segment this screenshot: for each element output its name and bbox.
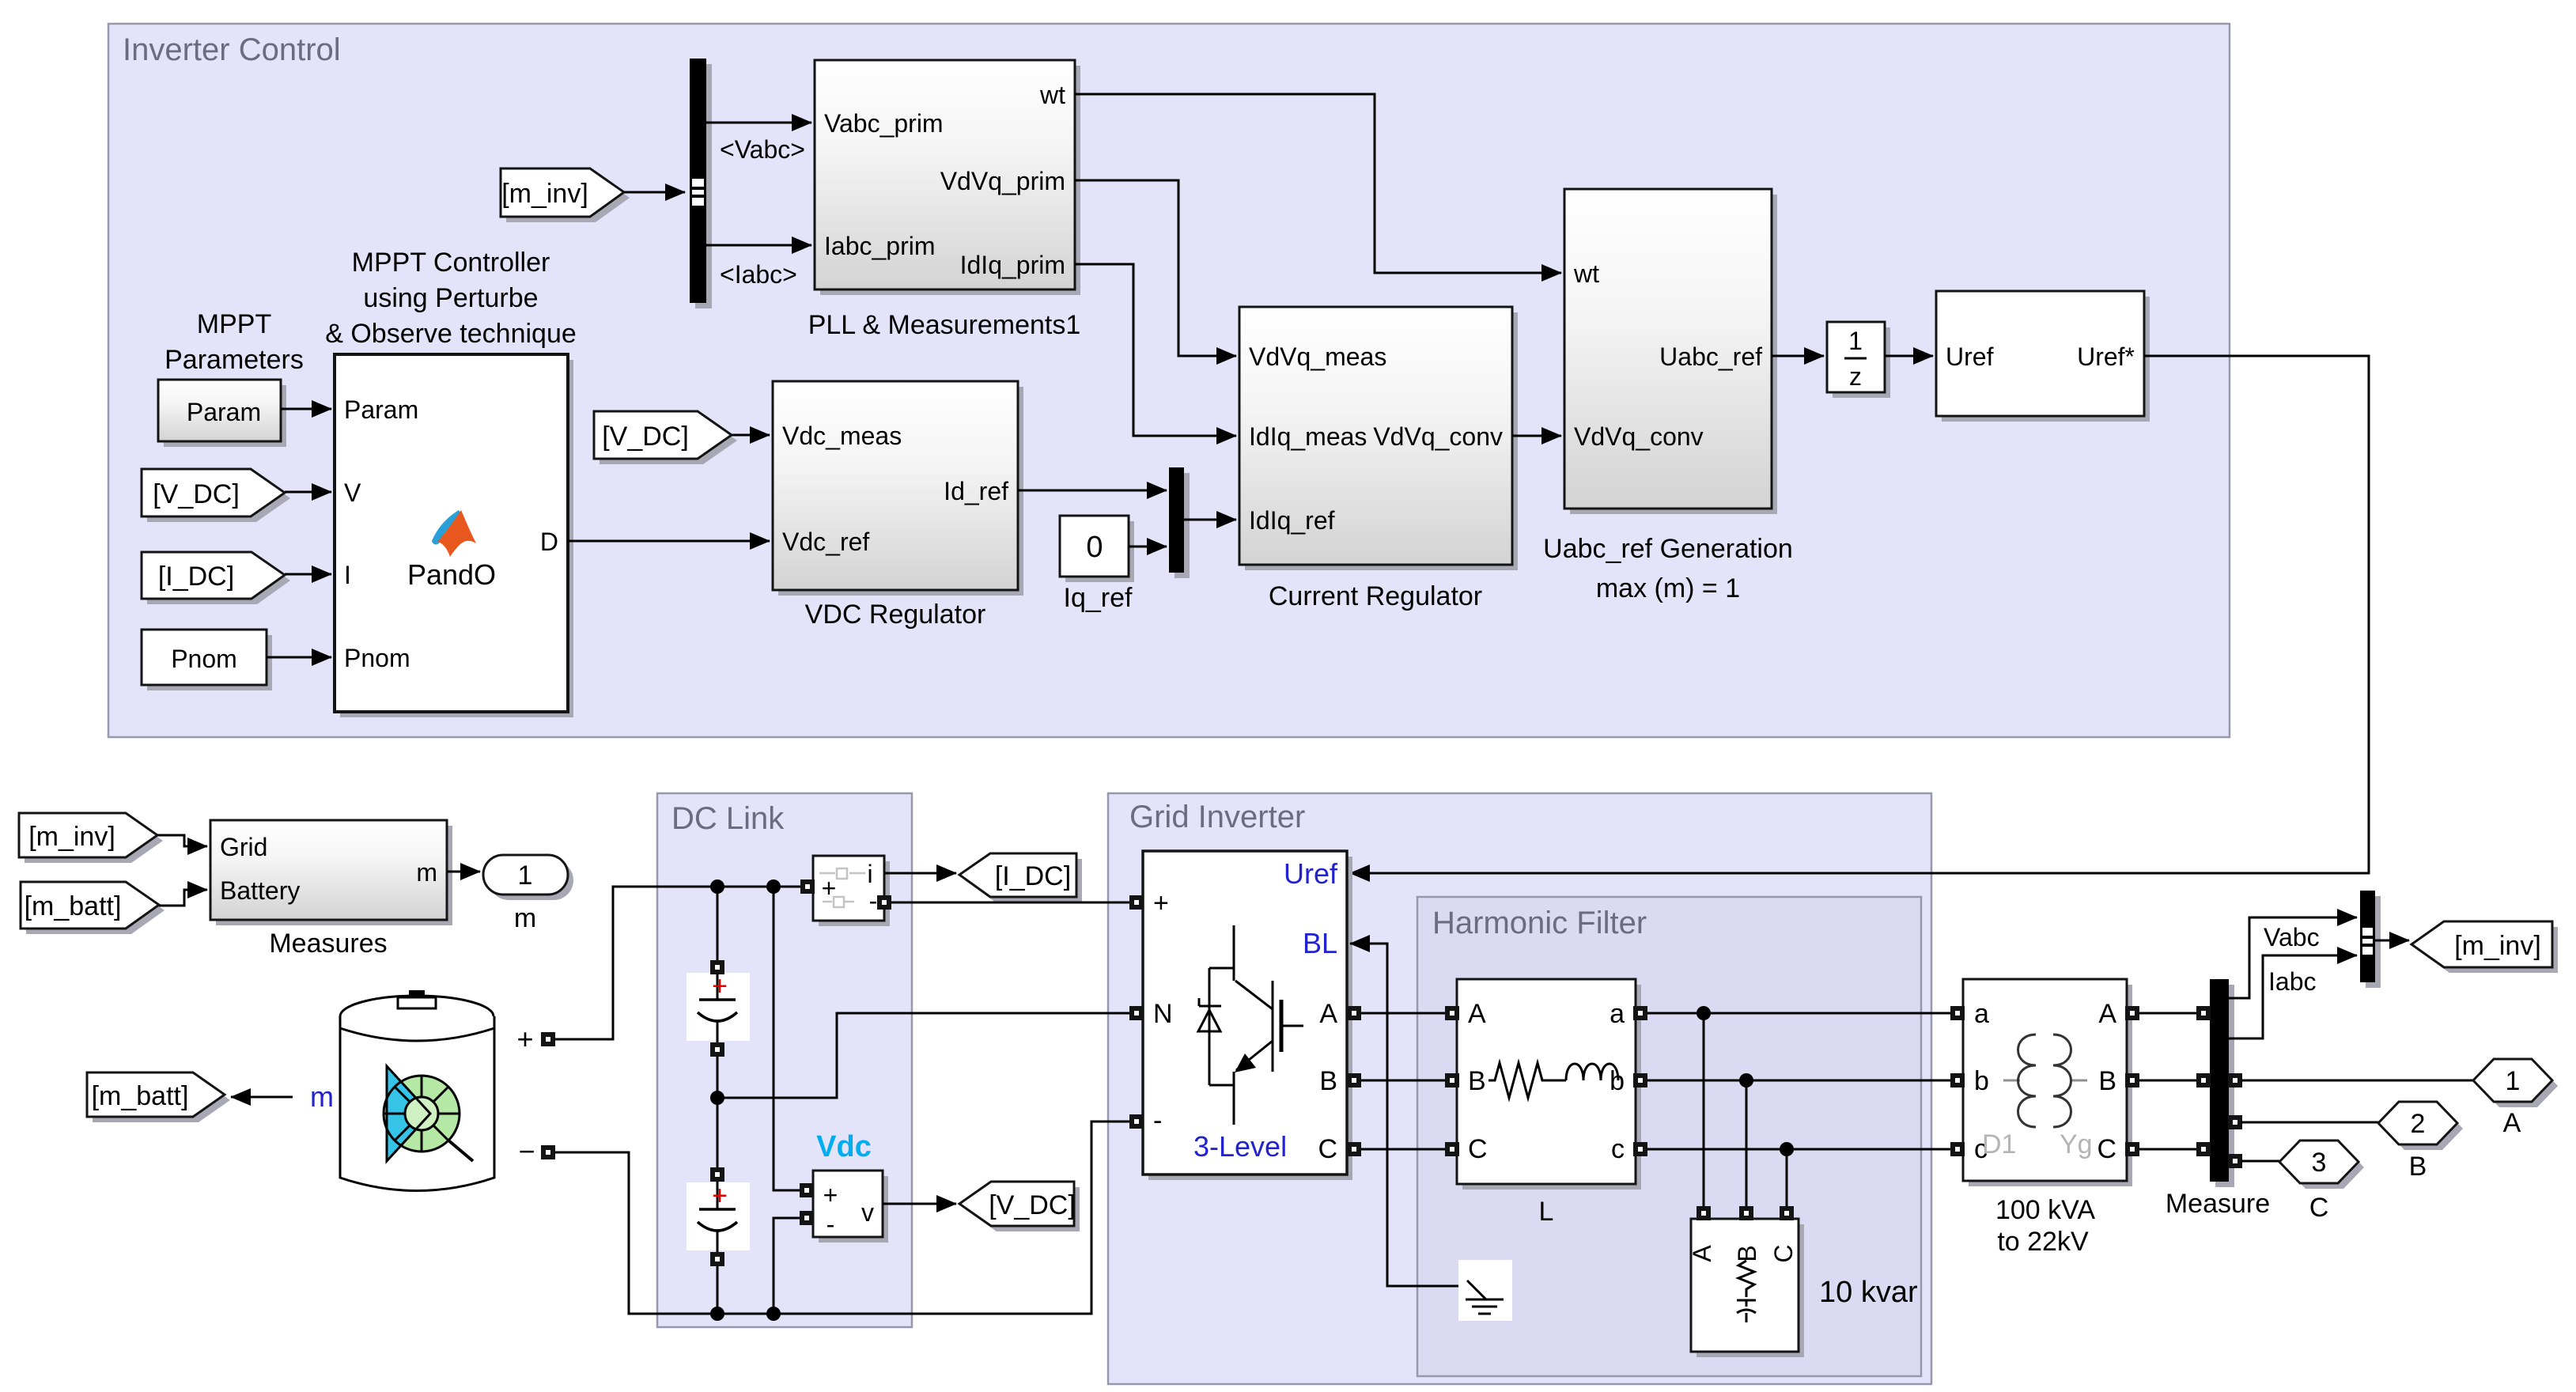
svg-text:Pnom: Pnom [171, 645, 237, 673]
svg-text:a: a [1974, 999, 1989, 1029]
junction dot midpoint [710, 1091, 724, 1105]
capacitor C2 [717, 1098, 719, 1171]
Measure multimeter bar [2215, 985, 2234, 1187]
container: Inverter Control subsystem area [108, 24, 2230, 737]
goto tag [m_inv] [2417, 927, 2558, 973]
svg-text:[m_inv]: [m_inv] [28, 822, 115, 852]
output port 3 (C) [2285, 1146, 2364, 1189]
block 3-Level inverter bridge [1148, 857, 1352, 1180]
svg-text:wt: wt [1039, 81, 1065, 109]
svg-text:<Iabc>: <Iabc> [720, 260, 797, 289]
wire Uref* to 3-Level Uref input (long feedback) [1350, 356, 2369, 873]
svg-text:Harmonic Filter: Harmonic Filter [1432, 906, 1647, 940]
svg-text:Param: Param [344, 395, 418, 424]
svg-text:Id_ref: Id_ref [944, 477, 1008, 505]
svg-text:1: 1 [2506, 1066, 2521, 1096]
svg-text:A: A [1688, 1245, 1716, 1262]
svg-text:0: 0 [1086, 531, 1103, 564]
svg-text:c: c [1611, 1134, 1625, 1164]
block Uref / Uref* [1942, 297, 2150, 422]
svg-text:Vdc_ref: Vdc_ref [782, 528, 869, 556]
svg-text:m: m [310, 1080, 334, 1113]
svg-text:A: A [1468, 999, 1486, 1029]
svg-text:1: 1 [1848, 327, 1863, 355]
block voltage measurement v [819, 1176, 888, 1243]
svg-text:MPPT Controller: MPPT Controller [352, 248, 550, 278]
block PLL & Measurements1 [820, 66, 1080, 295]
from tag [I_DC] to MPPT I [147, 558, 290, 604]
svg-text:Uref*: Uref* [2077, 342, 2135, 371]
svg-text:IdIq_meas: IdIq_meas [1249, 422, 1367, 451]
svg-text:Iabc: Iabc [2268, 967, 2316, 996]
svg-text:Pnom: Pnom [344, 644, 410, 672]
block Pnom constant [147, 635, 272, 690]
svg-text:PandO: PandO [407, 558, 496, 591]
wire 0 to mux [1129, 546, 1167, 548]
svg-text:Uabc_ref Generation: Uabc_ref Generation [1543, 534, 1793, 564]
from tag [m_inv] feeding demux [506, 174, 630, 222]
wire C1 to midpoint [717, 1057, 719, 1098]
ground block [1458, 1260, 1512, 1321]
svg-text:using Perturbe: using Perturbe [363, 283, 538, 313]
svg-text:DC Link: DC Link [671, 801, 785, 836]
wire unit delay to Uref block [1885, 355, 1933, 357]
svg-text:V: V [344, 478, 361, 507]
svg-text:VdVq_conv: VdVq_conv [1574, 422, 1704, 451]
svg-text:[I_DC]: [I_DC] [995, 861, 1071, 891]
svg-text:Uref: Uref [1284, 857, 1338, 890]
wires 3-Level outputs to L block [1361, 1012, 1445, 1015]
svg-text:IdIq_ref: IdIq_ref [1249, 506, 1335, 535]
svg-text:A: A [2503, 1108, 2521, 1138]
svg-text:[V_DC]: [V_DC] [153, 479, 240, 509]
svg-text:+: + [712, 971, 728, 1001]
block unit delay 1/z [1833, 327, 1890, 398]
svg-text:I: I [344, 561, 351, 589]
svg-text:i: i [867, 860, 872, 888]
wire battery m to [m_batt] tag [231, 1096, 293, 1099]
svg-text:−: − [518, 1135, 535, 1167]
from tag [m_inv] to Measures Grid [25, 819, 163, 863]
svg-text:Battery: Battery [220, 876, 300, 905]
svg-text:Vdc_meas: Vdc_meas [782, 422, 902, 450]
goto tag [I_DC] [965, 859, 1082, 902]
battery block icon [340, 996, 494, 1037]
svg-text:B: B [1319, 1066, 1337, 1096]
block Param constant [164, 385, 286, 447]
wire MPPT D to VDC Regulator Vdc_ref [568, 540, 770, 543]
svg-text:VdVq_prim: VdVq_prim [940, 167, 1065, 195]
svg-text:A: A [2098, 999, 2116, 1029]
svg-text:wt: wt [1573, 259, 1599, 288]
wire rail to v + [774, 887, 800, 1190]
svg-text:Param: Param [187, 398, 261, 426]
svg-text:Grid Inverter: Grid Inverter [1129, 800, 1305, 834]
from tag [V_DC] to Vdc_meas [600, 417, 737, 464]
svg-text:Iq_ref: Iq_ref [1064, 583, 1133, 613]
block MPPT Controller (PandO) [340, 360, 573, 717]
wire Uabc_ref to unit delay [1772, 355, 1824, 357]
svg-text:Vabc_prim: Vabc_prim [824, 109, 944, 138]
svg-text:C: C [1318, 1134, 1337, 1164]
svg-text:N: N [1153, 999, 1173, 1029]
svg-text:Yg: Yg [2060, 1129, 2093, 1159]
svg-text:C: C [1769, 1244, 1798, 1262]
svg-text:m: m [514, 903, 536, 933]
svg-text:Inverter Control: Inverter Control [123, 32, 341, 67]
mux for IdIq_ref [1175, 473, 1190, 578]
svg-text:VDC Regulator: VDC Regulator [805, 600, 986, 630]
block constant 0 (Iq_ref) [1065, 521, 1134, 582]
svg-text:[m_inv]: [m_inv] [2454, 931, 2541, 961]
svg-text:Vdc: Vdc [816, 1130, 872, 1163]
svg-text:[I_DC]: [I_DC] [158, 562, 234, 592]
battery logo: cyan wedge [387, 1066, 430, 1161]
PandO MATLAB logo icon [432, 510, 463, 544]
svg-text:3-Level: 3-Level [1193, 1130, 1287, 1163]
wire Measure Iabc to mux [2229, 955, 2357, 1038]
svg-text:z: z [1849, 362, 1862, 391]
output port 1 (A) [2479, 1065, 2558, 1107]
svg-text:to 22kV: to 22kV [1997, 1227, 2089, 1257]
svg-text:B: B [2098, 1066, 2116, 1096]
block Uabc_ref Generation [1570, 195, 1777, 514]
from tag [m_batt] to Measures Battery [26, 887, 165, 934]
container: Harmonic Filter area [1417, 897, 1921, 1376]
goto tag [m_batt] from battery m [93, 1078, 230, 1122]
wires transformer to Measure bar [2139, 1012, 2196, 1015]
svg-text:& Observe technique: & Observe technique [325, 319, 577, 349]
svg-text:[m_inv]: [m_inv] [501, 179, 588, 209]
block 10 kvar capacitor bank [1697, 1224, 1804, 1357]
wire PLL wt to Uabc_ref Generation wt [1075, 94, 1561, 273]
svg-text:100 kVA: 100 kVA [1995, 1195, 2095, 1225]
svg-text:A: A [1319, 999, 1337, 1029]
wire battery - to bottom rail to inverter - [554, 1122, 1129, 1314]
wire PLL IdIq_prim to IdIq_meas [1075, 264, 1236, 436]
wire v - to bottom rail [774, 1218, 800, 1314]
transformer winding icon [2003, 1080, 2020, 1082]
svg-text:Current Regulator: Current Regulator [1269, 581, 1482, 611]
svg-text:+: + [822, 874, 837, 902]
wire PLL VdVq_prim to VdVq_meas [1075, 180, 1236, 356]
wire Param to MPPT [281, 408, 331, 410]
svg-text:10 kvar: 10 kvar [1819, 1276, 1918, 1309]
output port 2 (B) [2384, 1107, 2463, 1150]
wire [m_inv] to demux [624, 191, 685, 194]
wires Measure to output ports [2241, 1080, 2474, 1082]
wire demux to Iabc_prim [706, 244, 811, 247]
svg-text:3: 3 [2312, 1148, 2327, 1178]
wire i output to [I_DC] tag [884, 872, 956, 875]
wire mux to [m_inv] goto [2375, 940, 2409, 942]
wires L outputs to transformer with taps [1647, 1012, 1950, 1015]
svg-text:B: B [2409, 1152, 2427, 1182]
svg-text:Parameters: Parameters [165, 345, 304, 375]
junction dots to capacitor bank [1697, 1006, 1711, 1020]
svg-text:Measures: Measures [269, 929, 387, 959]
svg-text:Grid: Grid [220, 833, 267, 861]
rotated RC icon inside bank [1737, 1261, 1756, 1322]
svg-text:a: a [1610, 999, 1625, 1029]
wire i - to 3-Level + [891, 902, 1129, 904]
svg-text:D: D [540, 528, 558, 556]
svg-text:b: b [1974, 1066, 1989, 1096]
svg-text:C: C [2097, 1134, 2116, 1164]
wire battery + to DC rail [554, 887, 806, 1039]
block Measures [216, 826, 452, 925]
wire Measures m to outport 1 [447, 871, 480, 873]
svg-text:[V_DC]: [V_DC] [602, 422, 689, 452]
wire VdVq_conv to Uabc_ref Generation [1512, 435, 1561, 437]
from tag [V_DC] to MPPT V [147, 475, 290, 522]
svg-text:D1: D1 [1982, 1129, 2016, 1159]
svg-text:C: C [1468, 1134, 1488, 1164]
container: Grid Inverter area [1108, 793, 1931, 1384]
container: DC Link area [657, 793, 912, 1327]
wire Measure Vabc to mux [2229, 917, 2357, 998]
svg-text:-: - [827, 1210, 835, 1239]
capacitor C2 white backing [687, 1182, 750, 1250]
outport 1 (m) [489, 861, 573, 900]
goto tag [V_DC] [965, 1187, 1080, 1231]
svg-text:[m_batt]: [m_batt] [25, 891, 122, 921]
vertical drops to 10 kvar bank [1703, 1013, 1705, 1208]
svg-text:Measure: Measure [2166, 1189, 2270, 1219]
svg-text:+: + [823, 1181, 838, 1209]
svg-text:VdVq_conv: VdVq_conv [1373, 422, 1503, 451]
svg-text:[m_batt]: [m_batt] [92, 1081, 189, 1111]
wire ground to BL input [1350, 944, 1485, 1286]
wire Id_ref to mux [1018, 490, 1167, 492]
svg-text:PLL & Measurements1: PLL & Measurements1 [808, 310, 1081, 340]
svg-text:+: + [712, 1181, 728, 1211]
svg-text:[V_DC]: [V_DC] [989, 1190, 1076, 1220]
svg-text:+: + [516, 1023, 533, 1055]
svg-text:2: 2 [2411, 1109, 2426, 1139]
svg-text:v: v [861, 1198, 874, 1227]
svg-text:L: L [1539, 1197, 1554, 1227]
wire demux to Vabc_prim [706, 122, 811, 124]
wire v output to [V_DC] tag [883, 1203, 956, 1205]
block L (filter inductor) [1462, 985, 1641, 1190]
svg-text:B: B [1733, 1245, 1761, 1261]
svg-text:Iabc_prim: Iabc_prim [824, 232, 936, 260]
svg-text:IdIq_prim: IdIq_prim [960, 251, 1065, 279]
svg-text:Uabc_ref: Uabc_ref [1659, 342, 1762, 371]
junction dots on - rail [710, 1307, 724, 1321]
block current measurement i [819, 861, 890, 926]
block Current Regulator [1245, 312, 1518, 570]
wire mux to IdIq_ref [1184, 519, 1236, 521]
svg-text:MPPT: MPPT [197, 309, 271, 339]
svg-text:<Vabc>: <Vabc> [720, 135, 805, 164]
svg-text:-: - [1153, 1106, 1162, 1136]
battery logo: green gauge circle [384, 1076, 460, 1152]
wire midpoint to inverter N [717, 1013, 1129, 1098]
resistor-inductor icon inside L [1488, 1063, 1566, 1098]
svg-text:-: - [869, 887, 878, 915]
IGBT + diode icon [1209, 925, 1234, 1125]
svg-text:C: C [2309, 1193, 2329, 1223]
capacitor C1 [717, 887, 719, 963]
mux bus creator bar [2366, 896, 2381, 988]
svg-text:Uref: Uref [1946, 342, 1994, 371]
demux bus selector bar [695, 64, 712, 308]
junction dots on + rail [710, 879, 724, 894]
block VDC Regulator [778, 387, 1023, 596]
block transformer 100 kVA [1969, 985, 2132, 1186]
svg-text:+: + [1153, 888, 1169, 918]
capacitor C1 white backing [687, 973, 750, 1041]
svg-text:VdVq_meas: VdVq_meas [1249, 342, 1386, 371]
svg-text:B: B [1468, 1066, 1486, 1096]
svg-text:1: 1 [518, 861, 533, 891]
svg-text:BL: BL [1303, 927, 1337, 959]
battery logo: gauge line work [384, 1076, 460, 1152]
svg-text:max (m) = 1: max (m) = 1 [1596, 573, 1740, 603]
svg-text:m: m [416, 858, 437, 887]
svg-text:Vabc: Vabc [2264, 923, 2320, 951]
